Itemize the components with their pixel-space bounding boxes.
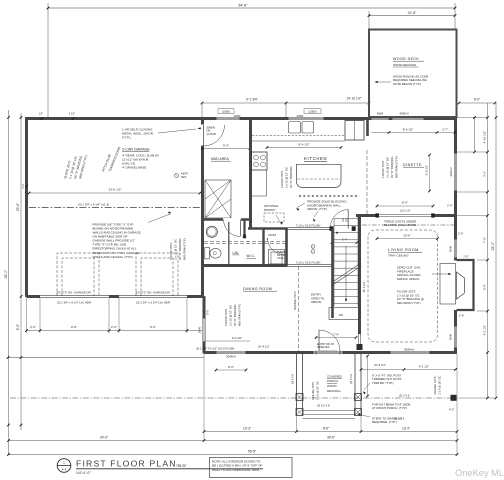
svg-text:9'-3": 9'-3" <box>223 143 229 147</box>
svg-text:DINETTE: DINETTE <box>403 163 422 167</box>
svg-text:8'-0": 8'-0" <box>228 365 234 369</box>
svg-text:8'-0": 8'-0" <box>402 201 408 205</box>
grade dash line bottom <box>10 397 458 399</box>
svg-text:W/ "X" BRACING: W/ "X" BRACING <box>289 166 293 188</box>
porch posts <box>296 394 303 401</box>
svg-text:4'-1 1/2": 4'-1 1/2" <box>483 325 487 336</box>
dimension 9'-4 1/2 island <box>267 147 341 149</box>
window 3050 kitchen sink north <box>288 117 324 121</box>
svg-text:DOUBLE JSTS: DOUBLE JSTS <box>293 291 297 310</box>
svg-text:2 x 6 @ 16" OC: 2 x 6 @ 16" OC <box>438 376 442 395</box>
dimension 23'-6 1/2 garage interior <box>29 192 200 194</box>
svg-text:3'-6": 3'-6" <box>483 171 487 177</box>
svg-text:3046=2: 3046=2 <box>404 347 414 351</box>
svg-text:(3) 2 X 8: (3) 2 X 8 <box>349 373 353 384</box>
svg-text:2 x 10 @ 16" OC: 2 x 10 @ 16" OC <box>229 305 233 326</box>
kitchen island <box>297 164 342 187</box>
double joists dashed entry <box>298 266 300 352</box>
svg-text:23'-6 1/2": 23'-6 1/2" <box>108 188 121 192</box>
svg-text:(3) 2 X 8: (3) 2 X 8 <box>291 373 295 384</box>
dimension 4'-10 1/2" dinette right inner <box>474 118 476 153</box>
svg-text:FLOOR JSTS: FLOOR JSTS <box>224 309 228 326</box>
svg-text:4'-10 1/2": 4'-10 1/2" <box>483 131 487 144</box>
svg-text:SIDELTES: SIDELTES <box>317 345 330 349</box>
range stove <box>252 152 268 170</box>
stair break line <box>331 263 361 283</box>
dimension 55'-8" overall bottom <box>9 454 458 456</box>
svg-text:39'-6": 39'-6" <box>327 435 335 439</box>
svg-text:DR: DR <box>342 218 345 222</box>
svg-text:3 1/2 x 9 1/2 FLUSH: 3 1/2 x 9 1/2 FLUSH <box>296 260 320 264</box>
svg-text:(2050): (2050) <box>222 109 230 113</box>
svg-text:14'-10 1/2": 14'-10 1/2" <box>346 97 361 101</box>
svg-text:4'-0": 4'-0" <box>449 407 454 411</box>
svg-text:3050: 3050 <box>297 114 304 118</box>
stair west wall <box>331 228 334 318</box>
kitchen wall cabinets dashed <box>252 135 345 137</box>
svg-text:(2) 2 x 8: (2) 2 x 8 <box>400 208 410 212</box>
svg-text:MID-SPAN (TYP.): MID-SPAN (TYP.) <box>397 301 421 305</box>
triple joists dash line <box>362 224 454 226</box>
svg-text:1'-6": 1'-6" <box>459 313 465 317</box>
svg-text:FIRST FLOOR PLAN: FIRST FLOOR PLAN <box>76 459 177 469</box>
svg-text:16'-4 1/2": 16'-4 1/2" <box>258 344 270 348</box>
svg-text:8'-0": 8'-0" <box>16 323 20 330</box>
window 3046 living east lower <box>454 326 458 348</box>
garage door track dashed 1 <box>57 253 99 296</box>
door 3068 garage to mud <box>201 125 204 146</box>
dimension 13'-6 living <box>377 238 438 240</box>
refrigerator <box>345 121 364 141</box>
svg-text:9'-0": 9'-0" <box>71 325 77 329</box>
svg-text:55'-8": 55'-8" <box>248 449 256 453</box>
svg-text:8'-6 1/2": 8'-6 1/2" <box>403 127 414 131</box>
vertical dim right of porch <box>367 356 369 396</box>
window 3050 mud north <box>216 117 240 121</box>
dimension row 13'-3" / 8'-6" / 13'-3" bottom <box>204 431 457 433</box>
svg-text:13'-3": 13'-3" <box>402 426 410 430</box>
svg-text:LIVING ROOM: LIVING ROOM <box>388 248 419 252</box>
lav-wic south wall <box>204 264 287 267</box>
arrow below stair door <box>336 232 338 235</box>
wic east wall <box>262 228 264 266</box>
svg-text:2'-0": 2'-0" <box>30 325 36 329</box>
window 3046 dining west <box>202 318 206 342</box>
svg-text:AT FRONT PORCH. (TYP.): AT FRONT PORCH. (TYP.) <box>372 406 407 410</box>
svg-text:9'-0": 9'-0" <box>150 325 156 329</box>
svg-text:(3) 1 3/4" x 9 1/4" LVL HDR: (3) 1 3/4" x 9 1/4" LVL HDR <box>136 300 170 304</box>
svg-text:2 x 10 @ 16" OC: 2 x 10 @ 16" OC <box>174 239 178 260</box>
svg-text:(3) 2 X 6: (3) 2 X 6 <box>394 416 405 420</box>
dimension 6'-0" deck right <box>459 102 495 104</box>
svg-text:KITCHEN: KITCHEN <box>304 156 327 161</box>
svg-text:WOOD DECKING: WOOD DECKING <box>393 63 417 67</box>
stair direction arrow <box>345 246 347 301</box>
svg-text:DN: DN <box>339 313 343 317</box>
svg-text:DECKING: DECKING <box>327 389 341 393</box>
entry door with sidelites <box>313 351 343 355</box>
svg-text:PANTRY: PANTRY <box>264 208 276 212</box>
svg-text:5'-8": 5'-8" <box>483 284 487 290</box>
optional pantry dashed <box>264 213 284 222</box>
svg-text:W.I.C.: W.I.C. <box>247 254 256 258</box>
svg-text:54'-8": 54'-8" <box>238 4 248 8</box>
stair side stringers <box>333 219 335 307</box>
west dining wall <box>203 296 206 354</box>
dimension row 24'-6" / 39'-6" <box>9 440 458 442</box>
svg-text:9'-2 3/4": 9'-2 3/4" <box>246 97 258 101</box>
mud bench lockers hatch <box>205 180 231 218</box>
fridge side wall <box>366 117 369 136</box>
svg-text:CEILING JSTS: CEILING JSTS <box>311 382 315 400</box>
svg-text:33'-0": 33'-0" <box>491 241 495 250</box>
svg-text:1: 1 <box>63 461 65 465</box>
window 3046-2 dining south <box>216 351 246 355</box>
kitchen counter edge <box>252 140 345 142</box>
tray ceiling dashed outline <box>368 230 438 342</box>
svg-text:2 x 6 @ 16" OC: 2 x 6 @ 16" OC <box>316 381 320 400</box>
tick garage west <box>25 185 28 188</box>
closet shelf <box>269 250 285 265</box>
svg-text:(3) 1/2 X 8: (3) 1/2 X 8 <box>317 403 330 407</box>
svg-text:9'-3 1/2": 9'-3 1/2" <box>232 336 242 340</box>
svg-text:3050: 3050 <box>234 114 241 118</box>
svg-text:2 1/2": 2 1/2" <box>69 112 75 115</box>
svg-text:MID-SPAN (TYP.): MID-SPAN (TYP.) <box>183 238 187 260</box>
svg-text:2-CAR GARAGE: 2-CAR GARAGE <box>122 148 150 152</box>
svg-text:LAV.: LAV. <box>233 251 240 255</box>
garage door opening 1 <box>40 295 109 299</box>
svg-text:7'-4": 7'-4" <box>333 332 339 336</box>
svg-text:W/ "X" BRACING: W/ "X" BRACING <box>233 304 237 326</box>
svg-text:TRAY CEILING: TRAY CEILING <box>388 254 409 258</box>
north exterior wall <box>25 117 457 120</box>
svg-text:2 x 10 @ 16" OC: 2 x 10 @ 16" OC <box>386 157 390 178</box>
svg-text:A-3: A-3 <box>62 467 67 471</box>
svg-text:3 1/2 x 9 1/2 FLUSH: 3 1/2 x 9 1/2 FLUSH <box>296 223 320 227</box>
svg-text:4050-2: 4050-2 <box>399 112 409 116</box>
svg-text:(3) 1 3/4" x 9 1/4" LVL B: (3) 1 3/4" x 9 1/4" LVL B <box>78 202 109 206</box>
svg-text:REQUIRED. (TYP.): REQUIRED. (TYP.) <box>372 420 397 424</box>
laundry tub circle <box>206 226 217 237</box>
detail bubble 1/A-3 <box>57 459 71 473</box>
grade post block right <box>451 395 457 401</box>
svg-text:4" GRAVEL BASE: 4" GRAVEL BASE <box>122 165 146 169</box>
svg-text:24'-6": 24'-6" <box>100 435 108 439</box>
svg-text:NOTE: ALL INTERIOR DOORS TO: NOTE: ALL INTERIOR DOORS TO <box>212 459 261 463</box>
svg-text:W/ "X" BRACING: W/ "X" BRACING <box>178 238 182 260</box>
kitchen-dinette ceiling break dashed <box>366 150 368 215</box>
svg-text:1/2": 1/2" <box>39 112 43 115</box>
svg-text:(3) 1 3/4" X 9 1/2" LVL'S FLUS: (3) 1 3/4" X 9 1/2" LVL'S FLUSH <box>196 346 234 350</box>
window 4050-2 dinette north <box>392 117 424 121</box>
svg-text:BE LOCATED A MIN. OF 6" OFF OF: BE LOCATED A MIN. OF 6" OFF OF <box>212 464 262 468</box>
svg-text:15'-1 1/2": 15'-1 1/2" <box>362 281 366 292</box>
svg-text:2'-0": 2'-0" <box>463 254 468 258</box>
svg-text:W/ "X" BRACING: W/ "X" BRACING <box>390 156 394 178</box>
svg-text:CASE: CASE <box>277 257 284 260</box>
svg-text:2'-0": 2'-0" <box>111 325 117 329</box>
stair treads <box>334 218 358 220</box>
svg-text:2'-4": 2'-4" <box>447 203 453 207</box>
wood deck outline <box>369 30 457 118</box>
svg-text:1/4"=1'-0": 1/4"=1'-0" <box>76 471 91 475</box>
svg-text:NOTE BELOW (TYP.): NOTE BELOW (TYP.) <box>393 82 421 86</box>
svg-text:WALL TO ACCOMMODATE TRIM.: WALL TO ACCOMMODATE TRIM. <box>212 468 260 472</box>
sliding door to deck <box>371 117 389 121</box>
svg-text:8'-6": 8'-6" <box>323 426 329 430</box>
note box interior doors <box>210 458 293 478</box>
svg-text:13'-3": 13'-3" <box>243 426 251 430</box>
window 3046-2 living south <box>390 351 430 355</box>
svg-text:3046: 3046 <box>449 245 453 252</box>
kitchen west wall <box>249 117 252 229</box>
window 3046-2 dinette east <box>454 153 458 191</box>
svg-text:9'-0 1/2": 9'-0 1/2" <box>425 165 429 176</box>
smoke detectors <box>311 245 315 249</box>
svg-text:5'-0": 5'-0" <box>22 183 25 188</box>
left dimension 25'-8" / 8'-0" <box>20 113 22 430</box>
blocking dashes under island <box>299 195 357 197</box>
toilet <box>205 248 210 259</box>
left outer dimension 33'-0" <box>8 110 10 455</box>
svg-text:ABOVE. (TYP.): ABOVE. (TYP.) <box>307 207 327 211</box>
svg-text:7'-6": 7'-6" <box>483 237 487 243</box>
svg-text:FLOOR JSTS: FLOOR JSTS <box>280 171 284 188</box>
right outer dimension 33'-0" <box>495 103 497 398</box>
east exterior wall lower <box>454 310 457 354</box>
svg-text:13'-6": 13'-6" <box>403 233 411 237</box>
svg-text:21'-8": 21'-8" <box>408 11 417 15</box>
wall stub below stairs <box>358 333 360 345</box>
porch steps <box>303 410 356 412</box>
garage west wall <box>25 117 28 297</box>
svg-text:6'-0": 6'-0" <box>474 97 480 101</box>
svg-text:WOOD: WOOD <box>327 384 337 388</box>
svg-text:9'-4 1/2": 9'-4 1/2" <box>299 142 310 146</box>
svg-text:9'0"x7'0" OH. GARAGE DR.: 9'0"x7'0" OH. GARAGE DR. <box>57 290 92 294</box>
svg-text:BEARING WALL ABOVE.: BEARING WALL ABOVE. <box>384 223 417 227</box>
svg-text:TRIM BD. (TYP.): TRIM BD. (TYP.) <box>372 381 394 385</box>
svg-text:2 x 10 @ 16" OC: 2 x 10 @ 16" OC <box>285 167 289 188</box>
porch left rail <box>296 354 298 415</box>
svg-text:9'0"x7'0" OH. GARAGE DR.: 9'0"x7'0" OH. GARAGE DR. <box>136 290 171 294</box>
svg-text:33'-0": 33'-0" <box>4 269 8 278</box>
door mud to hall <box>223 218 241 221</box>
bearing wall with cased opening <box>358 216 361 335</box>
garage south wall <box>27 295 205 298</box>
svg-text:6'-1 1/2": 6'-1 1/2" <box>419 364 429 368</box>
svg-text:10'-6 1/2": 10'-6 1/2" <box>374 363 386 367</box>
svg-text:MID-SPAN (TYP.): MID-SPAN (TYP.) <box>395 156 399 178</box>
porch right rail <box>354 354 356 415</box>
joist dashes lav <box>204 241 286 243</box>
svg-text:DINING ROOM: DINING ROOM <box>243 287 272 291</box>
garage center beam LVL dash line <box>29 207 200 209</box>
mud south wall <box>202 218 250 221</box>
svg-text:ABOVE: ABOVE <box>311 300 321 304</box>
svg-text:6068: 6068 <box>377 112 384 116</box>
garage door track dashed 2 <box>136 253 178 296</box>
svg-text:(3) 1 3/4" x 9 1/4" LVL HDR: (3) 1 3/4" x 9 1/4" LVL HDR <box>57 300 91 304</box>
fireplace hearth <box>440 264 456 305</box>
window 3046 living east upper <box>454 239 458 258</box>
fireplace bump-out <box>457 260 474 310</box>
dimension 10'-6 1/2 right of porch <box>361 369 457 371</box>
right dimension column segments <box>487 103 489 398</box>
heat detector symbol <box>175 174 179 178</box>
svg-text:WALLS AND CEILING. (TYP.): WALLS AND CEILING. (TYP.) <box>93 255 133 259</box>
dimension 54'-8" overall top <box>48 7 455 9</box>
svg-text:FLOOR JSTS: FLOOR JSTS <box>381 161 385 178</box>
svg-text:2'6x6'8: 2'6x6'8 <box>268 233 277 237</box>
svg-text:(2050): (2050) <box>308 109 316 113</box>
svg-text:WOOD DECK: WOOD DECK <box>393 57 419 61</box>
svg-text:MID-SPAN (TYP.): MID-SPAN (TYP.) <box>238 304 242 326</box>
svg-text:(3) 2 X 6: (3) 2 X 6 <box>399 394 410 398</box>
svg-text:DET.: DET. <box>181 175 187 179</box>
jamb block lav stub <box>243 235 246 239</box>
south exterior wall <box>204 351 457 354</box>
svg-text:8'-0": 8'-0" <box>206 309 210 314</box>
grade line left <box>8 357 204 359</box>
dimension 8'-0 dining windows <box>216 369 246 371</box>
svg-text:3046: 3046 <box>449 333 453 340</box>
svg-text:FLOOR JSTS: FLOOR JSTS <box>169 243 173 260</box>
svg-text:(2) RSR: (2) RSR <box>207 132 216 136</box>
hall south wall of kitchen <box>248 227 287 230</box>
dimension row upper-mid 9'-2 3/4" / 14'-10 1/2" <box>202 102 369 104</box>
lav west partition <box>228 222 230 264</box>
svg-text:MANUF. SPECS.: MANUF. SPECS. <box>397 277 420 281</box>
east exterior wall upper <box>454 117 457 261</box>
svg-text:25'-8": 25'-8" <box>16 202 20 211</box>
svg-text:PORCH: PORCH <box>327 379 338 383</box>
svg-text:2'-7": 2'-7" <box>442 127 448 131</box>
svg-text:2'-6": 2'-6" <box>458 231 464 235</box>
fireplace firebox <box>457 272 465 299</box>
dimension 9'-3 dining <box>204 340 250 342</box>
beam flush lower <box>287 264 332 266</box>
svg-text:COVERED: COVERED <box>327 374 343 378</box>
svg-text:CEILING JSTS: CEILING JSTS <box>433 376 437 394</box>
svg-text:MUD AREA: MUD AREA <box>211 157 229 161</box>
svg-text:OneKey MLS: OneKey MLS <box>455 468 504 478</box>
lav east wall stub <box>243 219 245 238</box>
garage east wall <box>201 117 204 296</box>
dimension 9'-3 mud <box>203 148 251 150</box>
svg-text:3046=2: 3046=2 <box>226 355 236 359</box>
garage door opening 2 <box>119 295 187 299</box>
dimension 8'-6 1/2 dinette <box>371 132 455 134</box>
svg-text:3046-2: 3046-2 <box>449 167 453 177</box>
svg-text:(TYP.): (TYP.) <box>122 136 131 140</box>
svg-text:3046: 3046 <box>197 326 201 333</box>
wall stub at stair top with door 2-8 <box>330 226 334 231</box>
closet east wall <box>285 228 288 266</box>
beam flush upper <box>287 227 332 229</box>
front entry door <box>318 330 320 351</box>
svg-text:755 SF: 755 SF <box>176 464 186 468</box>
dimension row 2'-0 / 9'-0 / 2'-0 / 9'-0 under garage <box>27 330 205 332</box>
dimension 3'-4 stair top <box>332 242 357 244</box>
dimension 7'-4 under stairs <box>316 337 356 339</box>
stair landing <box>329 308 360 320</box>
dimension 21'-8" deck top <box>369 15 455 17</box>
dimension 8'-0 opening <box>377 205 433 207</box>
kitchen sink <box>289 122 301 134</box>
ticks top-left wall <box>41 117 44 120</box>
